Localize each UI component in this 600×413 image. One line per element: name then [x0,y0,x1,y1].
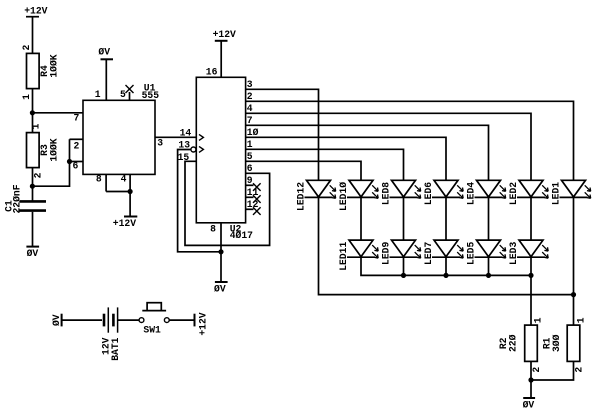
svg-text:LED8: LED8 [380,182,391,205]
wire junction to +12V [129,192,131,217]
inversion bubble pin 13 [191,147,196,152]
svg-text:1: 1 [95,89,101,100]
wire pin 8 down [105,174,107,191]
svg-text:LED9: LED9 [380,242,391,265]
X mark pin 12 [253,207,261,215]
svg-text:LED2: LED2 [508,182,519,205]
LED LED2 [517,180,548,198]
svg-text:ØV: ØV [98,47,110,58]
svg-text:ØV: ØV [51,314,62,326]
LED LED9 [390,240,421,258]
counter U2 4017 body [196,77,245,223]
svg-text:2: 2 [247,91,253,102]
svg-text:SW1: SW1 [143,325,161,336]
svg-text:ØV: ØV [214,283,226,294]
node bus junction LED7 [444,273,448,277]
X mark pin 11 [253,195,261,203]
svg-text:1: 1 [31,123,42,129]
svg-text:3: 3 [247,79,253,90]
LED LED8 [390,180,421,198]
svg-text:ØV: ØV [523,400,535,411]
resistor R3 100K [27,133,40,168]
node bus junction LED9 [401,273,405,277]
wire bus to R1 [573,295,575,326]
terminal 0V battery left [51,314,62,327]
svg-text:LED5: LED5 [465,242,476,265]
power +12V top-left [24,5,47,16]
node ground junction [529,378,533,382]
svg-text:+12V: +12V [213,29,236,40]
wire LED6 cathode to LED7 anode [445,197,447,240]
svg-text:+12V: +12V [113,218,136,229]
wire LED5 cathode drop [488,258,490,276]
svg-text:ØV: ØV [27,248,39,259]
wire C1 to ground [32,212,34,247]
wire LED11 cathode to bus [361,258,531,276]
node R1 junction [571,293,575,297]
ground 0V above 555 pin 1 [98,47,113,60]
wire battery to switch [118,319,140,321]
svg-text:8: 8 [210,224,216,235]
node pin6 junction [67,159,71,163]
terminal +12V battery right [195,312,209,335]
LED LED1 [560,180,591,198]
wire 555 pin 3 to 4017 pin 14 [155,136,196,138]
svg-text:22ØnF: 22ØnF [12,184,23,213]
svg-text:1: 1 [533,317,544,323]
node R3/C1/feedback junction [30,184,34,188]
wire 0V to battery [62,319,102,321]
svg-text:1ØØK: 1ØØK [49,54,60,77]
LED LED10 [347,180,378,198]
ground 0V bottom-left [26,247,39,260]
ground 0V below 4017 [214,282,228,294]
svg-text:7: 7 [74,113,80,124]
pin 9 stub (n.c.) [246,184,254,186]
svg-text:1: 1 [21,94,32,100]
LED LED4 [475,180,506,198]
wire 4017 pin 4 to LED column [246,113,531,180]
svg-text:14: 14 [180,127,192,138]
pin 11 stub (n.c.) [246,196,254,198]
wire R1 to ground bus [531,361,574,380]
wire 4017 pin 1 to LED column [246,149,404,180]
battery BAT1 12V [104,307,118,332]
X mark pin 5 [126,85,134,93]
wire pin 6 to pin 15 (reset loop) [185,161,270,245]
X mark pin 9 [253,183,261,191]
wire R3 to C1 [32,168,34,201]
power +12V above 4017 [213,29,236,41]
wire to 555 pin 2 [70,138,84,140]
wire 4017 pin 2 to LED column [246,101,574,180]
svg-text:LED7: LED7 [423,242,434,265]
wire 4017 pin 7 to LED column [246,125,489,180]
svg-text:LED1Ø: LED1Ø [338,182,349,211]
wire to 555 pin 6 [70,161,84,163]
pin 12 stub (n.c.) [246,208,254,210]
wire 0V to 555 pin 1 [105,59,107,100]
svg-text:3: 3 [157,138,163,149]
node R4/R3/pin7 junction [30,111,34,115]
wire 4017 pin 5 to LED column [246,161,361,180]
wire LED3 cathode drop [530,258,532,276]
svg-text:16: 16 [206,67,218,78]
svg-text:1: 1 [575,317,586,323]
svg-text:LED6: LED6 [423,182,434,205]
LED LED6 [432,180,463,198]
wire +12V to R4 [32,17,34,54]
pin 5 stub U1 (n.c.) [129,92,131,100]
svg-text:2: 2 [74,141,80,152]
svg-text:7: 7 [247,115,253,126]
wire LED10 cathode to LED11 anode [360,197,362,240]
svg-text:4: 4 [247,103,253,114]
svg-text:LED11: LED11 [338,242,349,271]
node pins 8/4 junction [128,189,132,193]
wire bus to R2 [530,275,532,325]
svg-text:4: 4 [121,174,127,185]
svg-text:5: 5 [120,89,126,100]
wire 4017 pin 8 to ground [220,223,222,282]
node bus junction LED5 [486,273,490,277]
wire R4 to R3 [32,89,34,133]
wire to 0V [530,380,532,398]
LED LED5 [475,240,506,258]
wire LED4 cathode to LED5 anode [488,197,490,240]
resistor R1 300 [567,325,580,361]
wire joining pins 8,4 [106,191,130,193]
wire LED12 cathode to R1 bus [319,197,574,294]
LED LED12 [305,180,336,198]
wire pin 4 down [129,174,131,191]
wire junction to 555 pins 2,6 [32,139,69,186]
wire switch to +12V [169,319,194,321]
svg-text:2: 2 [531,367,542,373]
svg-text:LED1: LED1 [550,182,561,205]
wire junction to 555 pin 7 [32,112,83,114]
svg-text:555: 555 [142,90,160,101]
wire LED1 cathode drop [573,197,575,294]
wire R2 to ground bus [530,361,532,380]
power +12V below 555 [113,217,138,230]
svg-text:LED12: LED12 [295,182,306,211]
wire 4017 pin 3 to LED column [246,89,319,180]
svg-text:6: 6 [73,161,79,172]
ground 0V bottom-right [523,398,536,411]
clock arrow pin 14 [199,134,203,140]
switch SW1 [139,303,169,323]
node pin8/pin13 ground junction [219,250,223,254]
resistor R4 100K [27,53,40,88]
wire LED2 cathode to LED3 anode [530,197,532,240]
wire pin 13 to ground (clock enable) [178,150,221,252]
LED LED11 [347,240,378,258]
wire LED9 cathode drop [403,258,405,276]
svg-text:3ØØ: 3ØØ [551,334,562,352]
resistor R2 220 [525,325,538,361]
svg-text:BAT1: BAT1 [110,337,121,360]
svg-text:4Ø17: 4Ø17 [230,230,253,241]
LED LED7 [432,240,463,258]
svg-text:+12V: +12V [198,312,209,335]
wire +12V to 4017 pin 16 [220,41,222,78]
svg-text:2: 2 [574,367,585,373]
svg-text:LED3: LED3 [508,242,519,265]
svg-text:22Ø: 22Ø [508,334,519,352]
svg-text:+12V: +12V [24,5,47,16]
svg-text:6: 6 [247,163,253,174]
wire 4017 pin 10 to LED column [246,137,446,180]
svg-text:LED4: LED4 [465,182,476,205]
svg-text:2: 2 [33,172,44,178]
node bus junction LED3 [529,273,533,277]
svg-text:1ØØK: 1ØØK [49,138,60,161]
capacitor C1 220nF [20,201,47,210]
svg-text:2: 2 [21,45,32,51]
LED LED3 [517,240,548,258]
op-amp U1 555 body [83,100,155,174]
clock arrow pin 13 [199,146,203,152]
wire LED8 cathode to LED9 anode [403,197,405,240]
svg-text:8: 8 [96,174,102,185]
wire LED7 cathode drop [445,258,447,276]
